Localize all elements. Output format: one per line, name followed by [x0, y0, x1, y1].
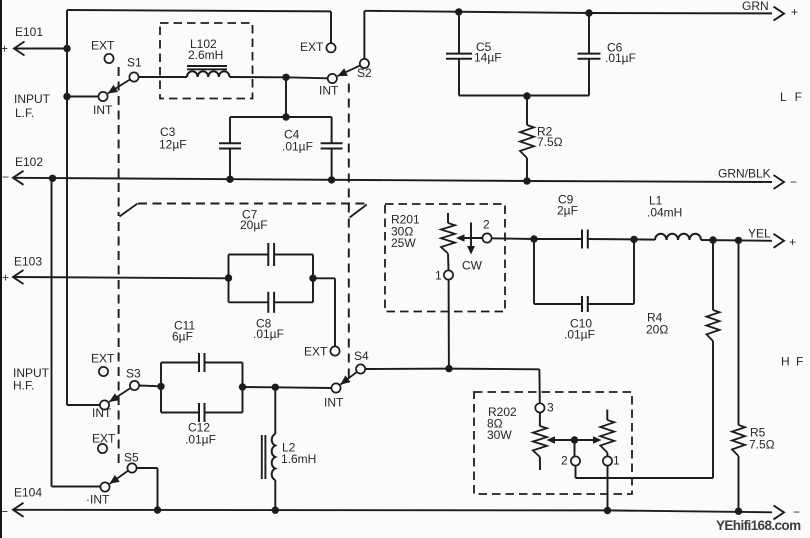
svg-text:1: 1 [613, 454, 620, 468]
svg-text:E104: E104 [14, 486, 42, 500]
svg-text:25W: 25W [391, 236, 416, 250]
svg-text:7.5Ω: 7.5Ω [749, 438, 775, 452]
svg-text:YEL: YEL [748, 227, 771, 241]
svg-text:H F: H F [781, 355, 805, 369]
svg-text:−: − [793, 505, 800, 519]
svg-text:INT: INT [92, 406, 112, 420]
svg-text:1.6mH: 1.6mH [281, 452, 316, 466]
svg-text:L.F.: L.F. [15, 106, 34, 120]
svg-text:CW: CW [462, 259, 483, 273]
svg-text:1: 1 [435, 269, 442, 283]
svg-text:3: 3 [547, 401, 554, 415]
svg-text:·INT: ·INT [86, 493, 110, 507]
svg-text:−: − [1, 505, 8, 519]
svg-text:E102: E102 [15, 155, 43, 169]
svg-text:GRN/BLK: GRN/BLK [718, 167, 771, 181]
svg-text:EXT: EXT [92, 432, 116, 446]
svg-text:E103: E103 [14, 255, 42, 269]
svg-text:EXT: EXT [91, 39, 115, 53]
svg-text:+: + [2, 271, 9, 285]
svg-text:INT: INT [319, 84, 339, 98]
svg-text:7.5Ω: 7.5Ω [537, 135, 563, 149]
svg-text:12µF: 12µF [159, 138, 187, 152]
svg-text:14µF: 14µF [474, 51, 502, 65]
svg-text:E101: E101 [15, 25, 43, 39]
svg-text:20Ω: 20Ω [646, 323, 668, 337]
svg-text:EXT: EXT [91, 352, 115, 366]
svg-text:INT: INT [324, 396, 344, 410]
svg-text:6µF: 6µF [172, 330, 193, 344]
svg-text:.01µF: .01µF [564, 328, 595, 342]
svg-text:.01µF: .01µF [253, 327, 284, 341]
svg-text:GRN: GRN [742, 0, 769, 13]
svg-text:30W: 30W [487, 428, 512, 442]
svg-text:.01µF: .01µF [605, 51, 636, 65]
svg-text:20µF: 20µF [240, 218, 268, 232]
svg-text:.04mH: .04mH [647, 206, 682, 220]
svg-text:+: + [789, 235, 796, 249]
svg-text:H.F.: H.F. [13, 379, 34, 393]
svg-text:EXT: EXT [304, 345, 328, 359]
svg-text:2: 2 [483, 218, 490, 232]
svg-text:EXT: EXT [300, 40, 324, 54]
svg-text:−: − [2, 170, 9, 184]
svg-text:+: + [1, 42, 8, 56]
svg-text:S4: S4 [354, 349, 369, 363]
svg-text:S2: S2 [357, 66, 372, 80]
svg-text:2.6mH: 2.6mH [188, 48, 223, 62]
svg-text:S3: S3 [126, 367, 141, 381]
svg-text:INT: INT [93, 103, 113, 117]
svg-text:S5: S5 [124, 451, 139, 465]
svg-text:INPUT: INPUT [14, 92, 51, 106]
svg-text:2: 2 [561, 454, 568, 468]
svg-text:−: − [790, 175, 797, 189]
svg-text:.01µF: .01µF [185, 433, 216, 447]
svg-text:S1: S1 [127, 56, 142, 70]
svg-text:.01µF: .01µF [282, 140, 313, 154]
svg-text:YEhifi168.com: YEhifi168.com [716, 518, 801, 533]
svg-text:L F: L F [780, 90, 804, 104]
svg-text:+: + [791, 5, 798, 19]
svg-text:2µF: 2µF [557, 204, 578, 218]
